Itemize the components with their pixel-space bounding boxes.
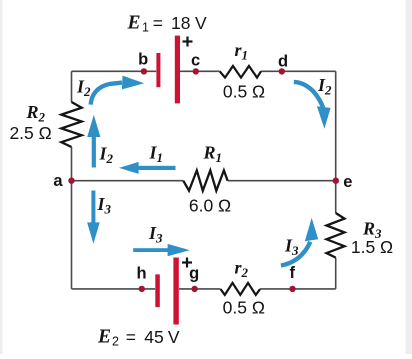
wire left branch: [71, 71, 73, 289]
svg-text:h: h: [136, 265, 146, 283]
svg-text:=: =: [126, 327, 136, 347]
svg-text:V: V: [168, 327, 180, 347]
svg-text:E: E: [97, 327, 111, 348]
wire bottom branch: [72, 288, 336, 290]
current arrow I1 left: [119, 162, 176, 174]
battery E2 positive plate: [173, 258, 178, 325]
resistor r2: [221, 283, 260, 295]
resistor R2: [61, 102, 81, 147]
wire right branch: [335, 71, 337, 289]
svg-text:1: 1: [142, 21, 149, 35]
svg-text:0.5 Ω: 0.5 Ω: [223, 82, 265, 102]
svg-text:g: g: [189, 265, 199, 283]
current arrow I3 curved bottom-right: [281, 218, 318, 266]
svg-text:b: b: [138, 51, 148, 69]
node h: [139, 286, 145, 292]
svg-text:V: V: [195, 13, 207, 33]
label emf E1 = 18 V: [127, 13, 208, 35]
node b: [141, 68, 147, 74]
page margin strip left: [0, 0, 3, 354]
node d: [279, 68, 285, 74]
svg-text:1.5 Ω: 1.5 Ω: [351, 237, 393, 257]
current arrow I3 down left side: [87, 191, 100, 244]
svg-text:0.5 Ω: 0.5 Ω: [223, 298, 265, 318]
node c: [193, 68, 199, 74]
svg-text:=: =: [153, 13, 163, 33]
page margin strip right: [406, 0, 412, 354]
battery E1 positive plate: [175, 36, 180, 104]
node f: [289, 286, 295, 292]
svg-text:45: 45: [144, 327, 163, 347]
current arrow I2 up left side: [87, 115, 100, 168]
resistor r1: [220, 66, 261, 78]
svg-text:c: c: [191, 52, 200, 70]
svg-text:6.0 Ω: 6.0 Ω: [189, 196, 231, 216]
svg-text:e: e: [343, 173, 352, 191]
battery E2 plus sign: [182, 258, 192, 268]
svg-text:d: d: [278, 53, 288, 71]
svg-text:2: 2: [112, 335, 119, 349]
node a: [68, 178, 74, 184]
battery E1 negative plate: [156, 53, 160, 87]
node e: [333, 178, 339, 184]
svg-text:18: 18: [171, 13, 190, 33]
label emf E2 = 45 V: [97, 327, 180, 349]
battery E2 negative plate: [155, 274, 160, 307]
node g: [191, 286, 197, 292]
svg-text:2.5 Ω: 2.5 Ω: [9, 123, 51, 143]
current arrow I3 right bottom: [133, 244, 190, 256]
resistor R3: [327, 213, 345, 258]
svg-text:a: a: [53, 172, 63, 190]
resistor R1: [183, 170, 227, 190]
wire middle branch a-e: [72, 180, 336, 182]
svg-text:f: f: [290, 264, 296, 282]
current arrow I2 curved top-left: [91, 76, 145, 105]
wire top branch: [72, 70, 336, 72]
current arrow I2 curved top-right: [294, 82, 331, 129]
battery E1 plus sign: [183, 37, 193, 47]
svg-text:E: E: [127, 13, 141, 34]
